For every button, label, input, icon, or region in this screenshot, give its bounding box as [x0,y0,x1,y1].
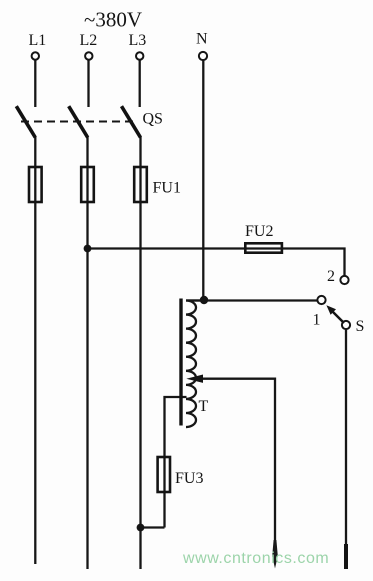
svg-text:2: 2 [327,268,335,285]
svg-text:L2: L2 [80,32,98,49]
svg-text:FU2: FU2 [245,223,273,240]
svg-text:www.cntronics.com: www.cntronics.com [182,550,329,567]
svg-text:L1: L1 [29,32,47,49]
svg-text:S: S [356,318,365,335]
svg-text:T: T [199,398,209,415]
svg-text:FU3: FU3 [175,470,203,487]
svg-text:L3: L3 [129,32,147,49]
svg-text:QS: QS [143,111,163,128]
svg-text:~380V: ~380V [84,8,142,32]
svg-text:1: 1 [313,312,321,329]
svg-text:FU1: FU1 [153,180,181,197]
svg-text:N: N [196,31,208,48]
